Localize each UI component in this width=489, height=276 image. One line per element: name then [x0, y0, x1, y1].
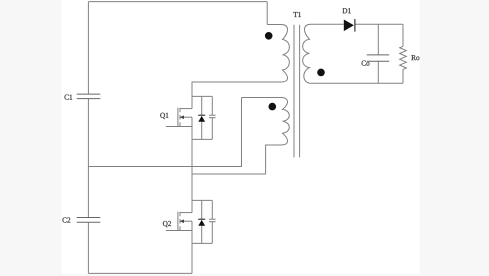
- mosfet Q1 assembly: [166, 96, 216, 139]
- capacitor C2 label: [63, 217, 71, 222]
- wire left bus lower: [87, 222, 89, 273]
- wire Q1 capacitance branch lower: [211, 118, 213, 140]
- wire primary1 exit to Q1 drain: [192, 82, 281, 96]
- output capacitance of Q1: [209, 115, 216, 118]
- wire left bus middle: [87, 99, 89, 218]
- transformer T1 primary winding 1: [267, 25, 289, 83]
- diode D1: [344, 20, 354, 32]
- mosfet Q1 label: [160, 113, 168, 119]
- wire switch node to primary2 bottom: [192, 145, 281, 174]
- wire midpoint to primary2 top: [88, 98, 241, 167]
- body diode of Q1: [198, 116, 205, 122]
- wire secondary top to D1: [311, 23, 344, 25]
- wire bottom bus: [88, 272, 192, 274]
- wire top drop to T1: [266, 2, 268, 25]
- mosfet Q1 substrate stub: [180, 116, 192, 118]
- capacitor Co: [367, 55, 389, 61]
- wire Co top lead: [377, 24, 379, 55]
- wire Q1 source to Q2 drain: [191, 139, 193, 200]
- wire Q1 capacitance branch upper: [211, 96, 213, 115]
- wire Q1 top rail: [192, 95, 212, 97]
- diode D1 label: [343, 8, 351, 13]
- wire Ro bottom lead: [402, 69, 404, 83]
- wire Q1 bottom rail: [192, 138, 212, 140]
- capacitor Co label: [362, 61, 370, 66]
- transformer T1 polarity dot secondary: [317, 69, 325, 77]
- wire Q1 drain branch: [191, 96, 193, 108]
- resistor Ro label: [411, 55, 419, 60]
- wire secondary bottom to output return: [311, 82, 403, 84]
- wire Q1 source branch: [191, 117, 193, 139]
- mosfet Q1 gate lead and source stub: [166, 126, 192, 128]
- wire left bus upper: [87, 2, 89, 95]
- wire D1 cathode to output: [355, 23, 403, 25]
- mosfet Q2 label: [163, 221, 171, 227]
- transformer T1 polarity dot primary 2: [269, 103, 277, 111]
- wire Co bottom lead: [377, 61, 379, 83]
- mosfet Q1 channel segments: [179, 108, 181, 127]
- capacitor C2: [77, 218, 101, 223]
- body diode of Q1 cathode bar: [198, 114, 205, 116]
- transformer T1 label: [293, 12, 300, 17]
- capacitor C1: [77, 94, 101, 99]
- wire top bus: [88, 1, 267, 3]
- transformer T1 core: [294, 25, 300, 158]
- wire Q1 body diode branch lower: [201, 122, 203, 140]
- wire Q2 source drop: [191, 243, 193, 273]
- mosfet Q1 substrate arrow: [180, 115, 184, 119]
- canvas background: [62, 0, 420, 274]
- wire output right drop: [402, 24, 404, 46]
- wire Q1 body diode branch upper: [201, 96, 203, 115]
- mosfet Q2 assembly (copy of Q1 shifted): [166, 200, 216, 243]
- mosfet Q1 gate bar: [177, 108, 179, 127]
- transformer T1 primary winding 2: [242, 98, 290, 146]
- capacitor C1 label: [65, 95, 73, 100]
- resistor Ro: [400, 46, 407, 69]
- mosfet Q1 drain stub: [180, 108, 192, 110]
- diode D1 cathode bar: [354, 19, 356, 32]
- transformer T1 polarity dot primary 1: [265, 32, 273, 40]
- transformer T1 secondary winding: [303, 24, 311, 83]
